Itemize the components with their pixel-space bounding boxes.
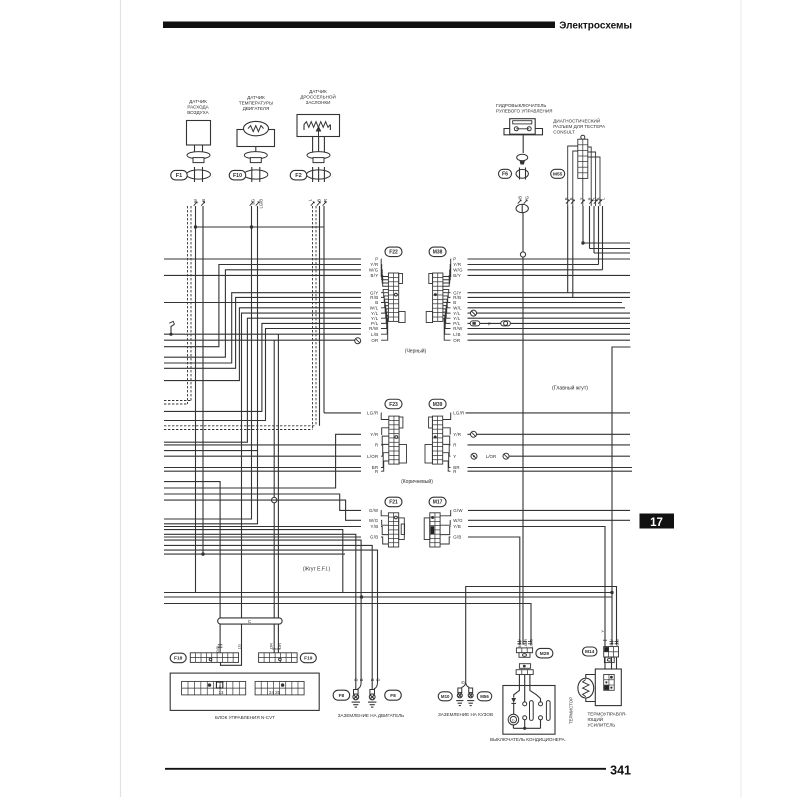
svg-text:F6: F6 [502, 172, 508, 178]
wire W/L staircase [164, 308, 361, 381]
svg-text:РАСХОДА: РАСХОДА [187, 105, 209, 110]
ECU connector right [255, 681, 304, 695]
svg-text:ДРОССЕЛЬНОЙ: ДРОССЕЛЬНОЙ [300, 93, 336, 100]
svg-text:Y/R: Y/R [370, 432, 378, 437]
connector bolt F10 upper [244, 152, 267, 159]
wire Y/R staircase [164, 265, 361, 347]
svg-text:R: R [375, 469, 378, 474]
connector F19 [259, 653, 298, 663]
wire Y/L 2 staircase [164, 318, 361, 442]
wire R left [164, 444, 361, 446]
svg-text:L/OR: L/OR [486, 454, 496, 459]
svg-text:W/G: W/G [453, 268, 463, 273]
svg-text:OR: OR [453, 338, 460, 343]
svg-text:F8: F8 [339, 693, 345, 699]
wire R/W staircase [164, 329, 361, 421]
connector F1 lower [187, 170, 211, 179]
ground body 2 [469, 688, 473, 693]
svg-text:OR: OR [371, 338, 378, 343]
thermo amp box [595, 669, 621, 706]
shield pigtail symbol [169, 333, 172, 336]
svg-text:LG/R: LG/R [453, 411, 464, 416]
svg-text:РУЛЕВОГО УПРАВЛЕНИЯ: РУЛЕВОГО УПРАВЛЕНИЯ [496, 109, 552, 114]
svg-text:G/B: G/B [453, 535, 461, 540]
svg-text:17: 17 [650, 517, 663, 529]
header bar [163, 22, 555, 29]
svg-text:R/W: R/W [369, 326, 379, 331]
connector M39 body [432, 416, 442, 464]
svg-text:B/Y: B/Y [453, 273, 461, 278]
shield tie line [196, 226, 325, 228]
wire OR with splice [164, 339, 355, 341]
wire to connector C LG/B [164, 482, 220, 618]
svg-text:341: 341 [610, 764, 631, 778]
AC right branch [530, 686, 541, 702]
extra consult rows [583, 242, 630, 244]
svg-text:G/W: G/W [369, 508, 379, 513]
svg-text:B: B [375, 300, 378, 305]
svg-text:F21: F21 [389, 500, 398, 506]
connector bolt F1 upper [187, 152, 210, 159]
oval F6 [499, 169, 512, 178]
oval M17 [429, 497, 446, 507]
connector bolt F6 upper [517, 154, 528, 160]
right rows M38 [468, 258, 631, 260]
wire OR branch to F19 [273, 340, 275, 618]
svg-text:ЮЩИЙ: ЮЩИЙ [588, 715, 604, 722]
svg-text:Y/B: Y/B [453, 524, 461, 529]
svg-text:F23: F23 [389, 402, 398, 408]
ECU connector left [182, 681, 246, 695]
oval M38 [429, 247, 446, 256]
svg-text:B: B [316, 199, 321, 202]
wire Y/R left [164, 434, 361, 488]
sensor air flow body [187, 121, 211, 146]
svg-text:Y/R: Y/R [453, 262, 461, 267]
svg-text:R: R [323, 199, 328, 202]
svg-text:OR: OR [269, 643, 274, 649]
svg-text:L/B: L/B [453, 332, 461, 337]
wires into AC switch [518, 675, 520, 686]
svg-text:ЗАЗЕМЛЕНИЕ НА КУЗОВ: ЗАЗЕМЛЕНИЕ НА КУЗОВ [438, 712, 493, 717]
svg-text:CONSULT: CONSULT [553, 130, 575, 135]
oval M39 [429, 399, 446, 409]
AC slots [530, 701, 534, 721]
thermistor [578, 678, 594, 698]
svg-text:ГИДРОВЫКЛЮЧАТЕЛЬ: ГИДРОВЫКЛЮЧАТЕЛЬ [496, 103, 546, 108]
svg-text:F22: F22 [389, 250, 398, 256]
connector M29 [516, 648, 532, 653]
sensor temp body [237, 130, 275, 147]
wire BR left [164, 467, 361, 469]
sensor throttle body [297, 115, 340, 137]
oval F1 [171, 170, 188, 180]
svg-text:Y: Y [453, 454, 456, 459]
svg-text:(Жгут E.F.I.): (Жгут E.F.I.) [303, 567, 331, 573]
svg-text:P: P [488, 321, 491, 326]
oval F21 [385, 497, 402, 507]
svg-text:P: P [375, 257, 378, 262]
wire R/B staircase [164, 297, 361, 368]
sensor3 wires down [319, 206, 321, 426]
ground drop wires engine [355, 604, 357, 690]
hydraulic switch wire down [522, 213, 524, 645]
connector F10 lower [244, 170, 268, 179]
svg-text:B: B [517, 196, 522, 199]
svg-text:ДВИГАТЕЛЯ: ДВИГАТЕЛЯ [243, 106, 270, 111]
M55 side pins [568, 146, 578, 185]
bottom bus lines [466, 587, 617, 677]
svg-text:F2: F2 [295, 173, 302, 179]
right rows M39 [466, 412, 630, 414]
svg-text:W: W [193, 199, 198, 203]
svg-text:R/W: R/W [453, 326, 463, 331]
svg-text:Y/R: Y/R [370, 262, 378, 267]
right rows M17 [468, 509, 630, 511]
connector F22 body [388, 273, 398, 321]
connector M29 lower [519, 664, 530, 669]
svg-text:F10: F10 [233, 173, 242, 179]
sensor1 wires down [195, 206, 197, 593]
connector F6 third [516, 204, 528, 212]
svg-text:B: B [370, 678, 375, 681]
svg-text:B/Y: B/Y [371, 273, 379, 278]
svg-text:LG: LG [237, 644, 242, 649]
svg-text:M39: M39 [433, 402, 443, 408]
svg-text:ЗАСЛОНКИ: ЗАСЛОНКИ [306, 100, 331, 105]
svg-text:G/B: G/B [370, 535, 378, 540]
oval F22 [385, 247, 402, 256]
inline connector symbols right of M38 [471, 310, 477, 316]
AC diode branch [514, 686, 520, 698]
oval F2 [290, 170, 307, 180]
svg-text:LG/B: LG/B [529, 639, 534, 648]
svg-text:F19: F19 [304, 656, 313, 662]
svg-text:Электросхемы: Электросхемы [559, 20, 632, 31]
hydraulic switch body [510, 119, 536, 135]
svg-text:G/W: G/W [453, 508, 463, 513]
svg-text:M10: M10 [441, 694, 450, 699]
connector C bar [218, 618, 282, 624]
oval M29 [536, 648, 553, 658]
svg-text:M14: M14 [585, 649, 595, 655]
oval F19 [300, 653, 316, 663]
svg-text:M17: M17 [433, 500, 443, 506]
svg-text:R: R [375, 443, 378, 448]
oval F8 right [385, 690, 402, 700]
oval F23 [385, 399, 402, 409]
wire B/Y [164, 274, 361, 276]
svg-text:ВОЗДУХА: ВОЗДУХА [187, 110, 209, 115]
svg-text:M38: M38 [433, 250, 443, 256]
svg-text:L/B: L/B [371, 332, 379, 337]
wires into thermo box [604, 657, 606, 669]
AC bottom link [513, 727, 540, 729]
connector F6 lower [516, 169, 528, 178]
svg-text:LG/R: LG/R [523, 639, 528, 648]
wire P [164, 258, 361, 260]
page edge lines [120, 0, 122, 797]
footer rule [165, 768, 606, 770]
svg-text:ДИАГНОСТИЧЕСКИЙ: ДИАГНОСТИЧЕСКИЙ [553, 117, 600, 124]
svg-text:W/G: W/G [453, 518, 463, 523]
connector M55 body [578, 139, 588, 178]
svg-text:24 25: 24 25 [269, 690, 281, 695]
svg-text:13: 13 [219, 690, 224, 695]
connector F18 [190, 653, 238, 663]
svg-text:F1: F1 [176, 173, 183, 179]
M17 keyed cell [431, 526, 435, 534]
svg-text:УСИЛИТЕЛЬ: УСИЛИТЕЛЬ [588, 723, 616, 728]
svg-text:ЗАЗЕМЛЕНИЕ НА ДВИГАТЕЛЬ: ЗАЗЕМЛЕНИЕ НА ДВИГАТЕЛЬ [338, 713, 404, 718]
svg-text:F8: F8 [390, 693, 396, 699]
wire L/B [164, 333, 361, 335]
hydraulic switch stem [522, 135, 524, 153]
svg-text:B: B [359, 678, 364, 681]
connector M38 body [433, 273, 443, 321]
svg-text:M29: M29 [540, 651, 550, 657]
main harness edge [612, 347, 630, 645]
svg-text:W/L: W/L [370, 306, 379, 311]
ECU box [170, 673, 319, 710]
extra left bus rows to ground drops [164, 530, 343, 593]
svg-text:B: B [354, 678, 359, 681]
svg-text:W/G: W/G [369, 518, 379, 523]
svg-text:LG/B: LG/B [258, 199, 263, 209]
wire ticks above M29 M14 [517, 641, 521, 643]
open splice circle [272, 497, 277, 502]
wires below C [219, 624, 221, 653]
AC switch box [503, 686, 555, 735]
wire Y/B left [164, 526, 361, 528]
svg-text:L/OR: L/OR [367, 454, 378, 459]
connector F21 body [388, 513, 398, 547]
svg-text:F18: F18 [174, 656, 183, 662]
svg-text:R: R [453, 469, 456, 474]
oval M56 [477, 692, 492, 701]
connector M14 [604, 647, 619, 657]
svg-text:ДАТЧИК: ДАТЧИК [189, 99, 207, 104]
connector F23 body [389, 416, 399, 464]
connector M17 body [430, 513, 440, 547]
svg-text:ДАТЧИК: ДАТЧИК [247, 95, 265, 100]
connector F2 lower [307, 170, 331, 179]
wire G/Y staircase [164, 293, 361, 363]
svg-text:OR: OR [277, 643, 282, 649]
ground engine 2 [370, 690, 375, 695]
svg-text:ВЫКЛЮЧАТЕЛЬ КОНДИЦИОНЕРА.: ВЫКЛЮЧАТЕЛЬ КОНДИЦИОНЕРА. [490, 737, 566, 742]
oval F18 [170, 653, 186, 663]
wire B [164, 302, 361, 304]
svg-text:БЛОК УПРАВЛЕНИЯ N-CVT: БЛОК УПРАВЛЕНИЯ N-CVT [215, 715, 275, 720]
wire G/W zigzag [164, 494, 361, 510]
oval M55 [551, 169, 565, 178]
shield dashed box sensor1 [187, 206, 189, 404]
M55 drop wires [567, 206, 569, 293]
AC lamp [508, 714, 519, 725]
wire Y/L to connector C [242, 313, 362, 618]
svg-text:ТЕРМИСТОР: ТЕРМИСТОР [569, 697, 574, 724]
svg-text:(Главный жгут): (Главный жгут) [552, 385, 588, 392]
wire LG/R from throttle sensor [324, 412, 361, 414]
wire L/OR left [164, 455, 361, 457]
oval F10 [229, 170, 246, 180]
oval M14 [582, 647, 597, 656]
svg-text:(Черный): (Черный) [405, 348, 427, 355]
svg-text:ДАТЧИК: ДАТЧИК [309, 89, 327, 94]
wire W/G staircase [164, 270, 361, 357]
F18 loop link [221, 649, 242, 665]
oval M10 [438, 692, 452, 701]
svg-text:ТЕРМОУПРАВЛЯ-: ТЕРМОУПРАВЛЯ- [588, 711, 628, 716]
svg-text:Y: Y [600, 630, 605, 633]
thermo amp grid [604, 675, 615, 691]
shield dashed box sensor3 [312, 206, 314, 430]
svg-text:M56: M56 [480, 694, 489, 699]
wire P/L staircase [164, 323, 361, 411]
svg-text:Y/R: Y/R [453, 432, 461, 437]
svg-text:РАЗЪЕМ ДЛЯ ТЕСТЕРА: РАЗЪЕМ ДЛЯ ТЕСТЕРА [553, 124, 606, 129]
wire G/B left [164, 536, 361, 538]
oval F8 left [333, 690, 350, 700]
wire R2 left [164, 470, 361, 472]
svg-text:M55: M55 [553, 172, 563, 178]
chapter tab 17 [640, 514, 675, 529]
svg-text:W/G: W/G [369, 268, 379, 273]
body ground fork [465, 676, 467, 682]
svg-text:B: B [461, 681, 466, 684]
ground engine 1 [354, 690, 359, 695]
AC middle contacts [524, 686, 526, 702]
ground body 1 [458, 688, 462, 693]
svg-text:R: R [453, 443, 456, 448]
svg-text:G: G [524, 196, 529, 199]
wire ticks above F18 F19 [218, 644, 223, 646]
svg-text:ТЕМПЕРАТУРЫ: ТЕМПЕРАТУРЫ [239, 101, 273, 106]
svg-text:(Коричневый): (Коричневый) [401, 478, 433, 485]
svg-text:B: B [453, 300, 456, 305]
wire L/B branch to F19 [277, 334, 279, 618]
svg-text:W/L: W/L [453, 306, 462, 311]
svg-text:LG/R: LG/R [367, 411, 378, 416]
wire W/G zigzag [164, 500, 361, 520]
stub row 450 [164, 450, 257, 452]
svg-text:P: P [453, 257, 456, 262]
svg-text:B: B [376, 678, 381, 681]
sensor2 wires down [164, 206, 252, 519]
svg-text:Y/B: Y/B [371, 524, 379, 529]
connector bolt F2 upper [307, 152, 330, 159]
svg-text:BR/Y: BR/Y [517, 639, 522, 649]
